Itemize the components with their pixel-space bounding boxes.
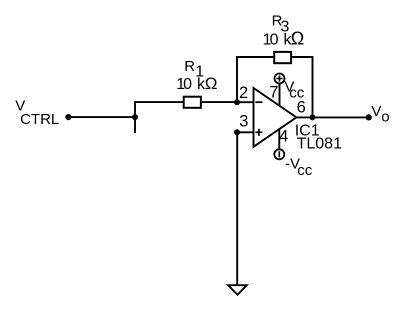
wire feedback top left to R3 — [236, 56, 274, 58]
svg-text:TL081: TL081 — [297, 136, 342, 153]
node C junction dot (output net) — [310, 114, 316, 120]
svg-text:R: R — [184, 58, 195, 75]
resistor R3 — [274, 52, 291, 63]
wire V_CTRL to junction A — [68, 116, 135, 118]
terminal dot V_CTRL — [65, 114, 71, 120]
+Vcc supply terminal — [275, 74, 285, 84]
resistor R1 — [184, 97, 201, 108]
-Vcc supply terminal — [274, 149, 284, 159]
wire R1 to node B — [201, 101, 237, 103]
pin 7 wire — [279, 84, 281, 107]
wire node B to op-amp pin 2 — [237, 101, 254, 103]
node V_o label — [371, 103, 389, 125]
label R1 — [184, 58, 204, 81]
op-amp non-inverting input plus symbol — [255, 129, 262, 136]
terminal dot V_o — [366, 114, 372, 120]
wire node A up to R1 row — [134, 102, 136, 118]
svg-text:7: 7 — [269, 83, 278, 101]
wire node D to op-amp pin 3 — [237, 131, 254, 133]
wire op-amp output to V_o — [296, 116, 368, 118]
svg-text:3: 3 — [239, 112, 248, 130]
svg-text:4: 4 — [279, 128, 288, 146]
svg-text:2: 2 — [239, 84, 248, 102]
op-amp IC1 triangle — [254, 88, 297, 147]
svg-text:V: V — [371, 103, 381, 120]
node V_CTRL label — [15, 98, 59, 128]
wire feedback left vertical — [236, 57, 238, 102]
node A junction dot — [132, 114, 138, 120]
node B junction dot (inverting input net) — [234, 99, 240, 105]
svg-text:cc: cc — [297, 162, 313, 179]
pin 4 wire — [278, 129, 280, 149]
svg-text:10: 10 — [263, 32, 279, 49]
wire R3 to feedback right vertical — [291, 56, 313, 58]
svg-text:10: 10 — [176, 76, 192, 93]
wire node D down to ground — [236, 132, 238, 285]
wire stub down from node A — [134, 117, 136, 133]
node D junction dot (non-inverting input net) — [234, 129, 240, 135]
svg-text:Ω: Ω — [291, 29, 304, 49]
label +Vcc — [284, 79, 304, 102]
wire feedback right vertical down to output — [312, 56, 314, 117]
op-amp inverting input minus symbol — [255, 101, 262, 103]
label -Vcc — [285, 156, 313, 179]
label R3 — [272, 12, 290, 35]
svg-text:CTRL: CTRL — [20, 111, 59, 128]
svg-text:Ω: Ω — [205, 74, 218, 93]
svg-text:6: 6 — [297, 99, 306, 117]
wire to R1 — [134, 101, 184, 103]
svg-text:o: o — [381, 108, 389, 125]
ground — [228, 285, 247, 295]
